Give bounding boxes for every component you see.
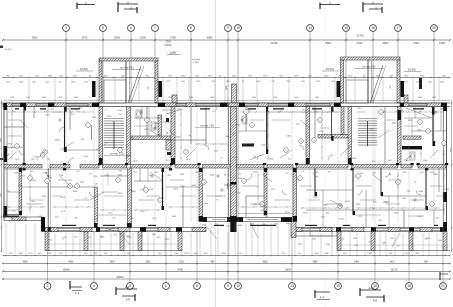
svg-text:1040: 1040 — [432, 97, 436, 99]
svg-text:3410: 3410 — [389, 261, 395, 263]
svg-text:2: 2 — [47, 284, 49, 288]
svg-text:по типу: по типу — [192, 59, 200, 61]
stair core 2 walls — [341, 57, 401, 60]
section marker 2-2 bottom-left — [115, 287, 117, 295]
svg-text:4-10: 4-10 — [368, 286, 374, 290]
svg-text:16.2: 16.2 — [100, 236, 104, 238]
section marker 2 top — [117, 2, 119, 12]
bottom wall right — [292, 227, 446, 229]
top dimension chain — [3, 77, 450, 79]
section marker 1 top-left — [76, 3, 78, 10]
stairwell 1 right wall — [127, 107, 131, 165]
svg-text:10: 10 — [236, 26, 240, 30]
stairwell 2 treads — [358, 120, 377, 122]
section marker 4 bottom-right — [359, 288, 361, 296]
right end wall — [446, 103, 448, 232]
svg-text:15: 15 — [336, 284, 340, 288]
svg-text:3700: 3700 — [413, 41, 419, 45]
extra door arcs near top wall — [11, 107, 16, 112]
stairwell 2 wall — [348, 107, 352, 165]
svg-text:9930: 9930 — [285, 268, 291, 271]
svg-text:3.3: 3.3 — [105, 110, 108, 112]
bottom dimension overall — [3, 271, 450, 273]
left end wall — [3, 103, 5, 221]
svg-text:10 (Ю): 10 (Ю) — [5, 49, 12, 51]
svg-text:2500: 2500 — [140, 36, 146, 40]
svg-text:1510: 1510 — [329, 109, 333, 111]
fold crease — [215, 0, 217, 307]
svg-text:33640: 33640 — [117, 276, 125, 279]
core 2 interior — [346, 80, 368, 103]
svg-text:1180: 1180 — [400, 111, 404, 113]
radiators bottom — [62, 225, 76, 226]
svg-text:1040: 1040 — [74, 97, 78, 99]
svg-text:12.3: 12.3 — [340, 239, 344, 241]
svg-text:9: 9 — [227, 284, 229, 288]
svg-text:6: 6 — [165, 284, 167, 288]
section marker bottom-mid — [314, 290, 316, 298]
svg-text:1510: 1510 — [48, 239, 52, 241]
svg-text:16.2: 16.2 — [51, 109, 55, 111]
svg-text:9.1: 9.1 — [62, 239, 65, 241]
vent shaft center — [232, 84, 237, 103]
interior walls lower band — [19, 168, 22, 215]
radiators top — [15, 108, 19, 109]
svg-text:7: 7 — [154, 26, 156, 30]
right margin dimension — [451, 100, 453, 252]
svg-text:4480: 4480 — [207, 36, 213, 40]
top wall hatch piers — [3, 103, 12, 107]
kitchen bar — [242, 144, 254, 147]
svg-text:16: 16 — [371, 26, 375, 30]
eaves line — [3, 99, 450, 101]
balcony zone left — [45, 250, 182, 252]
svg-text:3-П: 3-П — [126, 298, 130, 302]
svg-text:5: 5 — [102, 26, 104, 30]
svg-text:4610: 4610 — [262, 261, 268, 263]
svg-text:4: 4 — [93, 284, 95, 288]
bathroom cluster 2 — [404, 117, 431, 119]
leader lines — [60, 142, 74, 150]
bottom wall left — [42, 227, 206, 229]
svg-text:2-2: 2-2 — [125, 285, 129, 289]
stairwell 1 treads — [104, 120, 124, 122]
stairwell 1 left wall — [99, 107, 103, 165]
svg-text:1040: 1040 — [168, 97, 172, 99]
grand total dimension — [3, 278, 450, 280]
svg-text:1040: 1040 — [273, 97, 277, 99]
svg-text:4480: 4480 — [238, 225, 242, 227]
svg-text:8: 8 — [190, 26, 192, 30]
svg-text:3.3: 3.3 — [431, 108, 434, 110]
svg-text:12640: 12640 — [63, 268, 71, 271]
svg-text:16: 16 — [373, 284, 377, 288]
svg-text:2700: 2700 — [357, 41, 363, 45]
svg-text:3: 3 — [65, 26, 67, 30]
top grid lines — [65, 31, 67, 103]
bottom wall far-left — [4, 216, 42, 218]
top dimension line overall — [3, 39, 450, 41]
svg-text:18: 18 — [407, 284, 411, 288]
svg-text:21700: 21700 — [270, 41, 278, 45]
svg-text:1040: 1040 — [252, 97, 256, 99]
svg-text:2640: 2640 — [232, 108, 236, 110]
svg-text:по типу 1 (Б): по типу 1 (Б) — [200, 126, 214, 128]
balcony zone right — [337, 250, 450, 252]
svg-text:2500: 2500 — [383, 41, 389, 45]
svg-text:1200: 1200 — [65, 108, 69, 110]
svg-text:1040: 1040 — [152, 234, 156, 236]
bottom grid axis bubbles — [44, 283, 51, 290]
step wall left — [41, 217, 45, 232]
center step walls — [291, 222, 296, 238]
landing wall y134 right — [318, 135, 348, 139]
svg-text:450: 450 — [113, 235, 116, 237]
svg-text:760: 760 — [302, 110, 305, 112]
fixtures — [216, 175, 220, 177]
svg-text:1040: 1040 — [262, 224, 266, 226]
svg-text:19 (Ю): 19 (Ю) — [408, 68, 416, 72]
svg-text:1-1: 1-1 — [75, 291, 80, 295]
svg-text:21: 21 — [441, 284, 445, 288]
svg-text:3-П: 3-П — [373, 299, 377, 303]
svg-text:4480: 4480 — [286, 223, 290, 225]
svg-text:11170: 11170 — [391, 268, 398, 271]
svg-text:1510: 1510 — [368, 241, 372, 243]
stair core 1 walls — [99, 58, 158, 61]
svg-text:1040: 1040 — [42, 97, 46, 99]
interior dim chain y112 — [8, 111, 95, 113]
bottom dimension chain 1 — [3, 255, 450, 257]
windows top wall — [12, 103, 20, 105]
svg-text:1300: 1300 — [274, 223, 278, 225]
svg-text:1040: 1040 — [315, 97, 319, 99]
wc fixtures — [136, 110, 141, 118]
svg-text:19 (Ю): 19 (Ю) — [80, 67, 88, 71]
top grid axis bubbles — [63, 25, 70, 32]
top grid lines through body — [65, 107, 67, 222]
svg-text:1300: 1300 — [438, 240, 442, 242]
svg-text:1040: 1040 — [250, 224, 254, 226]
vertical micro dims — [180, 110, 182, 162]
extension comb top — [28, 79, 30, 103]
svg-text:1200: 1200 — [441, 108, 445, 110]
svg-text:9: 9 — [227, 26, 229, 30]
svg-text:21700: 21700 — [356, 34, 364, 38]
svg-text:13: 13 — [290, 284, 294, 288]
partitions lower — [22, 186, 48, 188]
top wall dark piers — [20, 103, 26, 107]
partitions upper — [4, 126, 24, 128]
svg-text:по типу ЛБ1: по типу ЛБ1 — [362, 66, 376, 69]
svg-text:90: 90 — [411, 244, 413, 246]
svg-text:1040: 1040 — [118, 110, 122, 112]
svg-text:3600: 3600 — [109, 261, 115, 263]
bottom grid stubs — [47, 232, 49, 283]
svg-text:1180: 1180 — [312, 238, 316, 240]
section marker 1-1 bottom-left — [69, 281, 71, 289]
section marker 2 top-right — [362, 2, 364, 12]
bottom dimension chain 2 — [3, 263, 450, 265]
svg-text:19 (Ю): 19 (Ю) — [326, 67, 334, 71]
svg-text:по типу 1 (Б): по типу 1 (Б) — [110, 154, 124, 156]
wall end jambs — [19, 168, 22, 172]
svg-text:2700: 2700 — [78, 108, 82, 110]
interior walls upper band — [23, 107, 25, 165]
interior dim chain y144 center — [195, 143, 228, 145]
svg-text:2700: 2700 — [170, 36, 176, 40]
svg-text:1040: 1040 — [26, 97, 30, 99]
right section partitions — [403, 136, 421, 139]
vent shafts small — [419, 78, 422, 89]
core2 walls extended — [341, 107, 344, 135]
svg-text:1040: 1040 — [210, 97, 214, 99]
svg-text:9790: 9790 — [177, 268, 183, 271]
svg-text:910: 910 — [203, 109, 206, 111]
svg-text:1 (Б1): 1 (Б1) — [193, 62, 199, 64]
svg-text:3600: 3600 — [325, 41, 331, 45]
svg-text:(2640): (2640) — [165, 44, 172, 47]
door swings — [68, 158, 74, 164]
svg-text:12.3: 12.3 — [226, 226, 230, 228]
top exterior wall — [3, 102, 450, 104]
svg-text:16.2: 16.2 — [87, 237, 91, 239]
svg-text:1180: 1180 — [357, 108, 361, 110]
svg-text:1040: 1040 — [139, 236, 143, 238]
svg-text:2000: 2000 — [114, 36, 120, 40]
svg-text:17: 17 — [396, 26, 400, 30]
corner mark top-left — [0, 46, 3, 49]
windows bottom right — [302, 228, 320, 230]
svg-text:1040: 1040 — [189, 97, 193, 99]
svg-text:8: 8 — [196, 284, 198, 288]
room number bubbles — [43, 150, 48, 155]
central spine wall hatched — [230, 107, 236, 222]
svg-text:760: 760 — [396, 245, 399, 247]
extra diag leaders — [36, 150, 46, 160]
pier in room — [158, 115, 162, 135]
svg-text:760: 760 — [424, 238, 427, 240]
core 2 flank piers — [337, 81, 341, 97]
svg-text:7600: 7600 — [32, 36, 38, 40]
svg-text:20: 20 — [432, 26, 436, 30]
svg-text:4400: 4400 — [68, 261, 74, 263]
closet lines — [8, 119, 22, 121]
svg-text:3400: 3400 — [354, 261, 360, 263]
svg-text:3680: 3680 — [312, 261, 318, 263]
svg-text:1040: 1040 — [58, 97, 62, 99]
svg-text:1040: 1040 — [418, 97, 422, 99]
svg-text:14: 14 — [308, 26, 312, 30]
svg-text:1500: 1500 — [439, 41, 445, 45]
svg-text:ЦФВ: ЦФВ — [170, 51, 176, 55]
svg-text:1510: 1510 — [165, 239, 169, 241]
svg-text:3700: 3700 — [82, 36, 88, 40]
landing wall y136 left — [131, 136, 172, 140]
svg-text:5: 5 — [129, 284, 131, 288]
svg-text:90: 90 — [215, 224, 217, 226]
svg-text:450: 450 — [126, 236, 129, 238]
svg-text:1040: 1040 — [10, 97, 14, 99]
svg-text:по типу ЛБ1: по типу ЛБ1 — [120, 67, 134, 70]
svg-text:3510: 3510 — [145, 261, 151, 263]
svg-text:1040: 1040 — [202, 224, 206, 226]
svg-text:1510: 1510 — [177, 109, 181, 111]
dense shaft cluster left of grid 8 — [166, 140, 171, 150]
svg-text:2640: 2640 — [298, 244, 302, 246]
svg-text:6: 6 — [130, 26, 132, 30]
middle longitudinal wall — [4, 165, 42, 169]
bottom grid lines through body — [47, 107, 49, 232]
bottom wall middle stepped — [199, 217, 292, 219]
extension comb bottom — [5, 223, 7, 254]
svg-text:3110: 3110 — [179, 261, 185, 263]
svg-text:15: 15 — [344, 26, 348, 30]
svg-text:4480: 4480 — [382, 242, 386, 244]
end mark right — [439, 272, 441, 280]
windows bottom left — [58, 228, 80, 230]
svg-text:1300: 1300 — [326, 244, 330, 246]
svg-text:16.2: 16.2 — [74, 237, 78, 239]
svg-text:1-1: 1-1 — [320, 295, 324, 299]
T mark — [224, 184, 231, 186]
core 1 interior — [104, 80, 126, 103]
svg-text:1300: 1300 — [354, 245, 358, 247]
section marker 1 top-right — [319, 3, 321, 10]
bathroom cluster 1 — [134, 117, 163, 119]
svg-text:ЦФВ: ЦФВ — [225, 85, 228, 90]
margin bits left — [0, 158, 3, 160]
interior dim chains lower — [6, 206, 46, 208]
svg-text:1040: 1040 — [294, 97, 298, 99]
svg-text:4060: 4060 — [23, 261, 29, 263]
svg-text:10: 10 — [236, 284, 240, 288]
left margin dimension — [1, 100, 3, 252]
core 1 flank piers — [92, 81, 96, 97]
junction blobs — [23, 163, 26, 165]
